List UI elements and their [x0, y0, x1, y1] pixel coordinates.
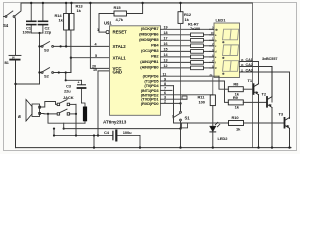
- node 94 row: [93, 134, 95, 136]
- svg-text:S1: S1: [185, 116, 191, 121]
- wire GND bottom rail: [16, 147, 292, 149]
- right pin rows PD: [161, 76, 225, 103]
- switch S1: [179, 102, 181, 104]
- wire L1 row: [64, 128, 181, 130]
- display pin numbers left: [211, 27, 214, 69]
- node C2 rail: [42, 2, 44, 4]
- svg-text:11: 11: [163, 73, 167, 77]
- wire XTAL1 row pin5: [71, 57, 110, 59]
- wire gnd drop 94: [93, 136, 95, 148]
- svg-text:7: 7: [164, 87, 166, 91]
- wire CA3: [240, 72, 290, 119]
- wire VCC top rail: [21, 2, 253, 4]
- svg-text:9: 9: [164, 77, 166, 81]
- wire caps gnd row: [31, 32, 43, 34]
- wire PD6 to R8: [219, 76, 228, 89]
- wire display dp drop: [212, 78, 214, 95]
- wire gnd column left: [39, 33, 41, 84]
- wire speaker top to jack: [41, 102, 58, 108]
- wire S2 row: [40, 58, 71, 73]
- wire CA1: [240, 62, 259, 84]
- svg-text:2: 2: [164, 100, 166, 104]
- wire LED2 gnd: [212, 132, 214, 147]
- svg-text:JACK: JACK: [63, 95, 74, 100]
- svg-text:R15: R15: [114, 5, 122, 10]
- node C1 rail: [30, 2, 32, 4]
- wire jog down to L1: [63, 123, 65, 128]
- svg-text:19: 19: [164, 26, 168, 30]
- svg-text:CA2: CA2: [246, 63, 253, 67]
- wire C3 jog: [66, 73, 82, 81]
- wire CA2: [240, 67, 273, 103]
- wire VCC right drop to emitter rail: [252, 3, 254, 148]
- wire speaker gnd drop: [48, 114, 85, 123]
- display stubs: [210, 29, 215, 68]
- border frame: [4, 3, 297, 151]
- svg-text:7x100: 7x100: [190, 27, 200, 31]
- svg-text:5: 5: [95, 54, 97, 58]
- svg-text:XTAL1: XTAL1: [113, 55, 127, 60]
- svg-text:(MISO)PB6: (MISO)PB6: [139, 31, 159, 36]
- speaker LS1: [26, 100, 41, 122]
- svg-text:10: 10: [93, 68, 97, 72]
- wire battery to GND column: [16, 83, 40, 85]
- right pin numbers PB: [164, 26, 169, 69]
- node S2 gnd: [38, 71, 40, 73]
- node 54a: [53, 128, 55, 130]
- svg-text:15: 15: [164, 48, 168, 52]
- wire XTAL2 row pin4: [40, 45, 110, 47]
- node R13 xtal1: [70, 57, 72, 59]
- node S1 L1: [179, 127, 181, 129]
- display segment letters: [210, 28, 219, 77]
- switch S4: [4, 3, 22, 55]
- svg-text:LED1: LED1: [216, 18, 227, 23]
- op-amp U$1 ATtiny2313 IC body: [110, 26, 161, 116]
- 7seg digit 1: [222, 29, 238, 43]
- wire R12 long drop: [180, 23, 182, 111]
- svg-text:GND: GND: [113, 69, 122, 74]
- svg-text:4,7k: 4,7k: [116, 17, 124, 22]
- wire PD5 to R9: [225, 81, 229, 102]
- wire S1 gnd drop: [180, 129, 182, 148]
- svg-text:8: 8: [164, 82, 166, 86]
- node jack gnd: [93, 146, 95, 148]
- resistor R11: [210, 95, 215, 106]
- reset bubble: [106, 30, 109, 33]
- battery B1: [9, 55, 21, 59]
- node R14 xtal2: [65, 45, 67, 47]
- wire PD4 to R10: [174, 86, 229, 123]
- wire VCC pin20: [90, 3, 109, 68]
- node jack row: [75, 134, 77, 136]
- node jack join: [75, 113, 77, 115]
- jumper stub on pin3 row: [182, 96, 187, 99]
- svg-text:PB2: PB2: [151, 54, 159, 59]
- svg-text:(AIN1)PB1: (AIN1)PB1: [140, 59, 159, 64]
- 7seg digit 3: [222, 61, 238, 75]
- right pin numbers PD: [163, 73, 167, 104]
- node 54b: [53, 134, 55, 136]
- transistor T3: [244, 122, 284, 124]
- right pin rows PB: [161, 29, 215, 68]
- svg-text:(AIN0)PB0: (AIN0)PB0: [140, 65, 159, 70]
- capacitor C3: [78, 80, 86, 103]
- svg-text:(OC1)PB3: (OC1)PB3: [141, 48, 159, 53]
- svg-text:U$1: U$1: [104, 20, 112, 25]
- wire plug bar down: [84, 121, 86, 123]
- resistor R15: [99, 14, 114, 33]
- svg-text:100u: 100u: [123, 130, 132, 135]
- wire speaker bottom row: [41, 113, 58, 115]
- svg-text:18: 18: [164, 31, 168, 35]
- svg-text:100n: 100n: [23, 30, 32, 35]
- svg-text:LED2: LED2: [218, 136, 229, 141]
- svg-text:100: 100: [199, 100, 206, 105]
- wire GND pin10: [98, 71, 110, 136]
- 7seg digit 2: [222, 45, 238, 59]
- wire reset row: [99, 31, 106, 33]
- switch S3: [41, 42, 53, 48]
- svg-text:CA3: CA3: [246, 69, 253, 73]
- capacitor C1: [27, 3, 36, 33]
- resistor R9: [228, 100, 243, 105]
- svg-text:(RXD)PD0: (RXD)PD0: [141, 101, 160, 106]
- svg-text:ATtiny2313: ATtiny2313: [103, 120, 127, 125]
- node speaker bottom: [47, 113, 49, 115]
- svg-text:22u: 22u: [64, 89, 71, 94]
- svg-text:R8: R8: [233, 82, 239, 87]
- svg-text:(MOSI)PB5: (MOSI)PB5: [139, 37, 159, 42]
- resistor R8: [228, 87, 243, 92]
- wire battery minus down: [15, 60, 17, 148]
- node row46 a: [60, 45, 62, 47]
- resistor R13: [69, 14, 74, 31]
- node jog: [65, 79, 67, 81]
- svg-text:RESET: RESET: [113, 30, 128, 35]
- switch S2: [41, 68, 53, 74]
- svg-text:B1: B1: [5, 61, 9, 65]
- svg-text:+: +: [78, 81, 80, 85]
- jumper stub below S1: [182, 123, 188, 128]
- svg-text:a: a: [18, 114, 21, 120]
- wire stub 54: [53, 129, 55, 136]
- LED2: [212, 106, 214, 126]
- svg-text:3xBC557: 3xBC557: [262, 57, 277, 61]
- svg-text:17: 17: [164, 37, 168, 41]
- transistor T1: [243, 88, 253, 90]
- svg-text:S4: S4: [3, 23, 9, 28]
- node battery gnd: [14, 83, 16, 85]
- node gnd pin drop: [97, 134, 99, 136]
- svg-text:R9: R9: [233, 95, 239, 100]
- node caps row: [38, 32, 40, 34]
- resistor R14: [64, 14, 69, 31]
- svg-text:12: 12: [164, 64, 168, 68]
- svg-text:R1-R7: R1-R7: [188, 23, 198, 27]
- left pin numbers: [92, 28, 99, 72]
- svg-text:1: 1: [97, 28, 99, 32]
- resistor R12: [180, 3, 182, 12]
- resistor R10: [229, 121, 244, 126]
- node bar L1: [63, 128, 65, 130]
- svg-text:16: 16: [164, 42, 168, 46]
- node XTAL2 gnd: [38, 45, 40, 47]
- svg-text:6: 6: [164, 91, 166, 95]
- svg-text:CA1: CA1: [246, 58, 253, 62]
- svg-text:XTAL2: XTAL2: [113, 44, 127, 49]
- node C3 tap: [58, 71, 60, 73]
- node C4 gnd rail: [139, 146, 141, 148]
- svg-text:C4: C4: [104, 130, 110, 135]
- capacitor C2: [39, 3, 48, 33]
- jack plug bar: [83, 107, 87, 122]
- svg-text:22p: 22p: [45, 30, 52, 35]
- svg-text:13: 13: [164, 59, 168, 63]
- svg-text:PB4: PB4: [151, 42, 159, 47]
- transistor T2: [243, 101, 266, 103]
- display pin numbers right: [241, 59, 244, 73]
- svg-text:(SCK)PB7: (SCK)PB7: [141, 26, 160, 31]
- svg-text:R10: R10: [232, 115, 240, 120]
